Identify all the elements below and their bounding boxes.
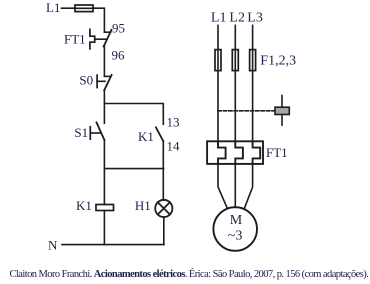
svg-text:~3: ~3: [228, 228, 243, 243]
svg-text:F1,2,3: F1,2,3: [260, 53, 296, 68]
svg-text:K1: K1: [76, 198, 92, 213]
svg-text:K1: K1: [138, 129, 154, 144]
svg-text:H1: H1: [135, 198, 151, 213]
svg-text:14: 14: [167, 139, 181, 154]
svg-text:S1: S1: [74, 125, 88, 140]
svg-text:96: 96: [112, 48, 126, 63]
svg-text:N: N: [48, 238, 58, 253]
svg-text:S0: S0: [79, 72, 93, 87]
svg-text:L1: L1: [211, 10, 227, 25]
svg-text:L3: L3: [247, 10, 263, 25]
svg-text:L2: L2: [229, 10, 245, 25]
svg-text:95: 95: [112, 21, 125, 36]
svg-text:L1: L1: [46, 0, 60, 15]
svg-text:13: 13: [167, 114, 180, 129]
svg-text:M: M: [230, 213, 243, 228]
svg-text:FT1: FT1: [266, 145, 288, 160]
svg-text:FT1: FT1: [64, 32, 86, 47]
svg-text:Claiton Moro Franchi. Acioname: Claiton Moro Franchi. Acionamentos elétr…: [10, 268, 369, 280]
